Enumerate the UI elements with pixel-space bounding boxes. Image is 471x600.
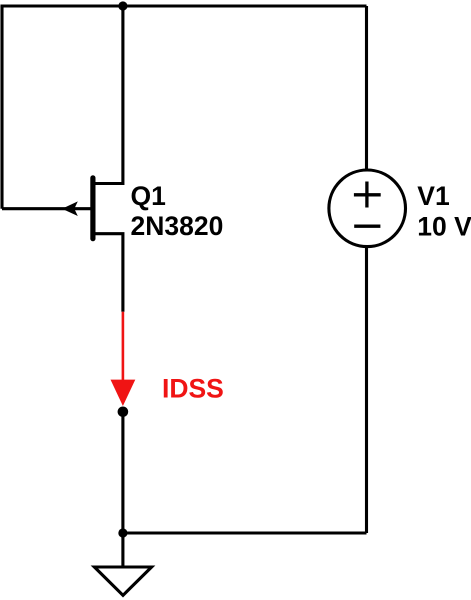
wire: left vertical segment [0,6,3,209]
svg-text:V1: V1 [417,181,449,211]
svg-text:10 V: 10 V [417,212,471,242]
transistor Q1 gate arrowhead [62,201,78,216]
node: junction dot below arrow [118,407,129,418]
node: top junction dot [118,1,127,10]
current annotation IDSS red line [122,312,125,382]
wire: source lead [93,234,123,312]
svg-text:Q1: Q1 [131,181,166,211]
ground symbol [94,567,151,595]
current annotation IDSS red arrowhead [111,380,136,406]
voltage source V1 circle [329,170,406,247]
wire: bottom horizontal net [123,531,367,534]
wire: ground stub [121,533,124,567]
wire: top horizontal net [0,4,366,7]
node: bottom junction dot [118,528,127,537]
wire: V1 bottom lead [365,247,368,533]
wire: drain lead [93,6,123,184]
transistor Q1 channel bar [90,178,95,239]
voltage source V1 plus sign [354,182,381,208]
wire: gate horizontal segment [2,207,93,210]
wire: V1 top lead [365,6,368,170]
voltage source V1 minus sign [354,225,380,228]
svg-text:IDSS: IDSS [162,374,224,404]
svg-text:2N3820: 2N3820 [131,211,224,241]
wire: vertical to bottom net [121,412,124,533]
